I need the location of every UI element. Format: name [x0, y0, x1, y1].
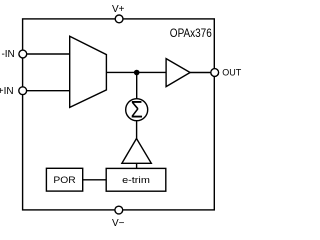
node junction dot — [134, 70, 140, 76]
outer boundary box — [23, 19, 215, 210]
op-amp input stage (trapezoid) — [70, 36, 107, 107]
terminal -IN — [19, 50, 27, 58]
svg-text:e-trim: e-trim — [122, 175, 150, 186]
wire POR to e-trim — [83, 179, 107, 181]
svg-text:V−: V− — [112, 218, 125, 228]
buffer amplifier (triangle) — [166, 59, 190, 87]
terminal +IN — [19, 87, 27, 95]
svg-text:OUT: OUT — [222, 68, 242, 78]
wire buffer to OUT — [190, 72, 214, 74]
wire trim amp to e-trim box — [136, 163, 138, 168]
block e-trim — [106, 168, 166, 191]
svg-text:OPAx376: OPAx376 — [170, 26, 212, 40]
wire junction down to summer — [136, 73, 138, 99]
terminal V+ — [115, 15, 123, 23]
block POR — [46, 168, 82, 191]
wire +IN input — [27, 90, 70, 92]
svg-text:-IN: -IN — [1, 49, 14, 60]
svg-text:V+: V+ — [112, 4, 125, 15]
wire summer to trim amp — [136, 121, 138, 140]
svg-text:Σ: Σ — [131, 97, 143, 124]
svg-text:POR: POR — [53, 175, 75, 186]
svg-text:+IN: +IN — [0, 86, 14, 97]
trim amplifier (up triangle) — [122, 139, 151, 164]
wire -IN input — [27, 53, 70, 55]
terminal V- — [115, 206, 123, 214]
terminal OUT — [211, 69, 219, 77]
summer circle with sigma — [126, 99, 148, 121]
wire amp output to buffer — [106, 71, 166, 73]
